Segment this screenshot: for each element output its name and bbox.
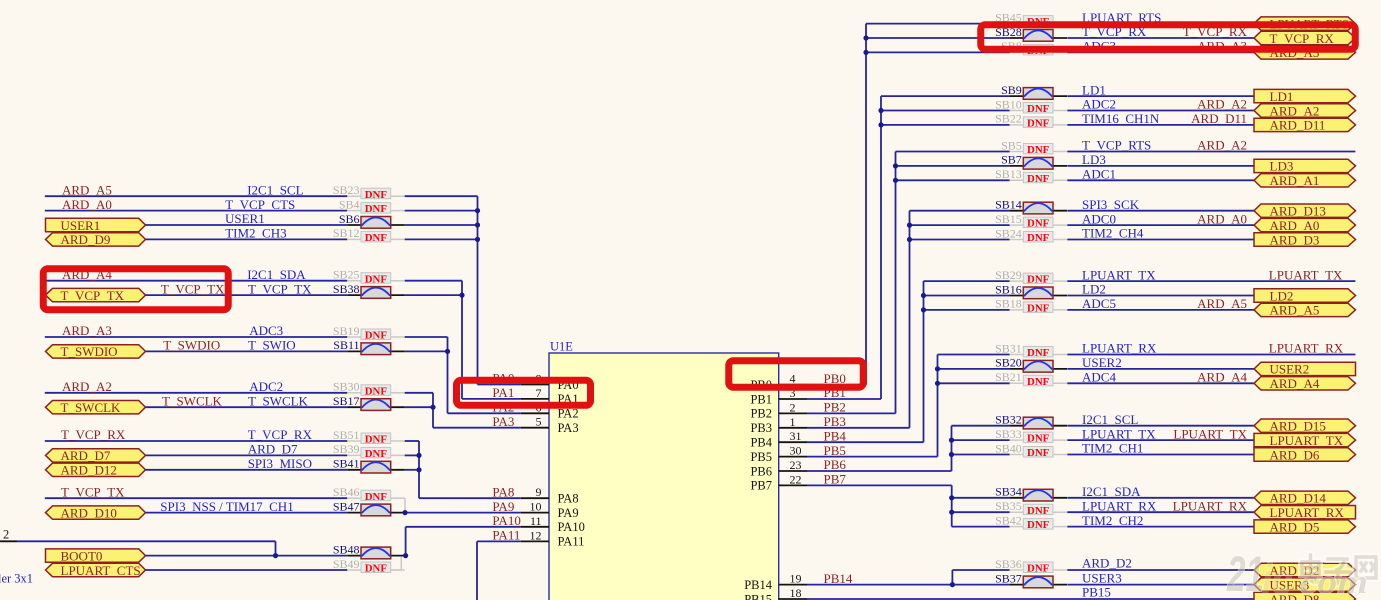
svg-text:PB15: PB15: [1082, 585, 1111, 600]
svg-text:PB14: PB14: [744, 578, 773, 592]
wire SB19 row: [45, 336, 348, 338]
net flag ARD_D12: [46, 463, 146, 478]
svg-text:9: 9: [536, 485, 542, 499]
svg-text:USER2: USER2: [1082, 355, 1122, 370]
junction at 419,455.4: [416, 453, 421, 458]
svg-text:SB32: SB32: [995, 413, 1022, 427]
wire bus group5 to PA8: [405, 441, 521, 498]
svg-text:SB29: SB29: [995, 268, 1022, 282]
wire bus group1 to PA0: [405, 196, 521, 384]
svg-text:T_SWDIO: T_SWDIO: [61, 344, 118, 359]
junction at 433,407.2: [430, 405, 435, 410]
svg-text:SB42: SB42: [995, 513, 1022, 527]
solder bridge SB35 (DNF, not fitted): [995, 499, 1067, 517]
solder bridge SB25 (DNF, not fitted): [333, 268, 405, 286]
svg-text:ARD_A3: ARD_A3: [62, 323, 112, 338]
wire to T_VCP_RX: [1067, 37, 1254, 39]
svg-text:I2C1_SCL: I2C1_SCL: [1082, 412, 1138, 427]
wire header to BOOT0 junction: [17, 541, 276, 555]
junction at 405.6,555.6: [403, 553, 408, 558]
solder bridge SB9 (fitted): [1001, 83, 1067, 99]
svg-text:ARD_A2: ARD_A2: [1197, 97, 1247, 112]
svg-text:PB15: PB15: [744, 592, 772, 600]
wire PB pin to bus group 7: [807, 426, 1010, 471]
net flag LPUART_RX: [1254, 505, 1356, 520]
solder bridge SB36 (DNF, not fitted): [995, 557, 1067, 575]
highlight box around PB0 pin: [729, 361, 864, 388]
net flag ARD_D14: [1254, 491, 1356, 506]
junction at 895.5,180.3: [893, 178, 898, 183]
pin 30 (PB5) of U1E: [750, 443, 845, 464]
svg-text:USER2: USER2: [1270, 362, 1310, 377]
junction at 405,512.6: [402, 510, 407, 515]
svg-text:PA10: PA10: [492, 513, 520, 528]
svg-text:SB20: SB20: [995, 356, 1022, 370]
wire SB51 row: [45, 440, 348, 442]
solder bridge SB11 (fitted): [333, 338, 404, 354]
svg-text:ARD_D15: ARD_D15: [1270, 419, 1326, 434]
wire to ARD_D6: [1067, 454, 1254, 456]
svg-text:18: 18: [790, 586, 802, 600]
junction at 951.7,497.8: [949, 495, 954, 500]
wire SB49 row: [146, 569, 348, 571]
svg-text:TIM2_CH2: TIM2_CH2: [1082, 513, 1143, 528]
svg-text:LPUART_RX: LPUART_RX: [1082, 498, 1157, 513]
svg-text:T_VCP_RX: T_VCP_RX: [248, 427, 313, 442]
solder bridge SB29 (DNF, not fitted): [995, 268, 1067, 286]
svg-text:DNF: DNF: [1027, 173, 1050, 185]
pin 11 (PA10) of U1E: [492, 513, 584, 534]
wire to sheet edge: [1067, 151, 1355, 153]
svg-text:SB11: SB11: [333, 338, 359, 352]
svg-text:LPUART_TX: LPUART_TX: [1082, 426, 1156, 441]
net flag USER2: [1254, 362, 1356, 377]
solder bridge SB22 (DNF, not fitted): [995, 112, 1067, 130]
svg-text:PA3: PA3: [558, 421, 579, 435]
svg-text:DNF: DNF: [1027, 376, 1050, 388]
svg-text:DNF: DNF: [365, 189, 388, 201]
pin 22 (PB7) of U1E: [750, 472, 846, 493]
net flag T_SWDIO: [46, 344, 146, 359]
pin 2 (PB2) of U1E: [750, 400, 845, 421]
wire SB47 row: [146, 512, 348, 514]
wire to LD3: [1067, 165, 1254, 167]
net flag LD3: [1254, 159, 1356, 174]
svg-text:SB18: SB18: [995, 297, 1022, 311]
wire PB14 to SB37 row: [807, 570, 1010, 585]
junction at 923.5,295.5: [921, 293, 926, 298]
wire to USER3 flag: [1067, 584, 1254, 586]
svg-text:USER1: USER1: [225, 211, 265, 226]
wire PB pin to bus group 1: [807, 24, 1010, 385]
wire to LPUART_TX: [1067, 439, 1254, 441]
svg-text:ADC4: ADC4: [1082, 370, 1116, 385]
wire PB pin to bus group 2: [807, 96, 1010, 399]
svg-text:SB25: SB25: [333, 268, 360, 282]
svg-text:ARD_D5: ARD_D5: [1270, 519, 1320, 534]
svg-text:TIM2_CH4: TIM2_CH4: [1082, 226, 1144, 241]
wire SB46 row: [45, 497, 348, 499]
svg-text:5: 5: [536, 415, 542, 429]
svg-text:DNF: DNF: [1027, 103, 1050, 115]
junction at 447.5,351.4: [445, 349, 450, 354]
net flag LPUART_RTS: [1254, 16, 1356, 31]
svg-text:ARD_A0: ARD_A0: [1197, 211, 1247, 226]
svg-text:23: 23: [790, 458, 802, 472]
pin 18 (PB15) of U1E: [744, 586, 807, 600]
svg-text:T_VCP_TX: T_VCP_TX: [61, 484, 125, 499]
junction at 477.5,210.6: [475, 208, 480, 213]
junction at 477.5,225: [475, 222, 480, 227]
svg-text:SB7: SB7: [1001, 153, 1022, 167]
wire to sheet edge: [1067, 280, 1355, 282]
svg-text:U1E: U1E: [550, 340, 573, 354]
svg-text:1: 1: [790, 415, 796, 429]
svg-text:ARD_D7: ARD_D7: [61, 448, 111, 463]
solder bridge SB5 (DNF, not fitted): [1001, 138, 1067, 156]
junction at 462,295.1: [459, 293, 464, 298]
svg-text:7: 7: [536, 386, 542, 400]
net flag LD2: [1254, 288, 1356, 303]
svg-text:DNF: DNF: [1027, 232, 1050, 244]
junction at 881,124.9: [878, 122, 883, 127]
wire SB17 row: [146, 406, 348, 408]
net flag ARD_D13: [1254, 204, 1356, 219]
solder bridge SB23 (DNF, not fitted): [333, 183, 405, 201]
svg-text:ADC2: ADC2: [1082, 97, 1116, 112]
svg-text:ARD_A0: ARD_A0: [62, 197, 112, 212]
wire to ARD_D14: [1067, 497, 1254, 499]
wire to ARD_D15: [1067, 425, 1254, 427]
svg-text:LPUART_TX: LPUART_TX: [1270, 433, 1344, 448]
svg-text:ARD_A4: ARD_A4: [1197, 370, 1247, 385]
wire SB48 to PA10: [405, 527, 521, 556]
pin 23 (PB6) of U1E: [750, 457, 846, 478]
svg-text:SPI3_MISO: SPI3_MISO: [248, 456, 312, 471]
wire SB47 to PA9: [405, 512, 521, 514]
wire SB11 row: [146, 350, 348, 352]
svg-text:ARD_D10: ARD_D10: [61, 505, 117, 520]
svg-text:PA9: PA9: [492, 499, 514, 514]
wire SB39 row: [146, 454, 348, 456]
solder bridge SB17 (fitted): [333, 394, 405, 410]
svg-text:ADC2: ADC2: [249, 379, 283, 394]
net flag ARD_A1: [1254, 173, 1356, 188]
svg-text:ARD_A5: ARD_A5: [1197, 296, 1247, 311]
solder bridge SB47 (fitted): [333, 499, 405, 515]
svg-text:LD2: LD2: [1082, 282, 1106, 297]
svg-text:PB7: PB7: [824, 472, 847, 487]
svg-text:SB4: SB4: [339, 197, 360, 211]
wire PB pin to bus group 8: [807, 485, 1010, 526]
wire to LPUART_RTS: [1067, 23, 1254, 25]
wire to ARD_D13: [1067, 210, 1254, 212]
net flag T_SWCLK: [46, 400, 146, 415]
svg-text:SB51: SB51: [333, 428, 360, 442]
svg-text:SPI3_SCK: SPI3_SCK: [1082, 197, 1140, 212]
svg-text:DNF: DNF: [1027, 274, 1050, 286]
net flag ARD_D10: [46, 505, 146, 520]
svg-text:DNF: DNF: [1027, 563, 1050, 575]
svg-text:PA11: PA11: [558, 535, 585, 549]
wire PB pin to bus group 5: [807, 281, 1010, 442]
net flag ARD_D8: [1254, 592, 1356, 600]
svg-text:SB15: SB15: [995, 212, 1022, 226]
wire SB12 row: [146, 238, 348, 240]
svg-text:T_SWCLK: T_SWCLK: [162, 393, 223, 408]
solder bridge SB24 (DNF, not fitted): [995, 226, 1067, 244]
svg-text:SB47: SB47: [333, 499, 360, 513]
svg-text:SB49: SB49: [333, 557, 360, 571]
svg-text:ARD_A4: ARD_A4: [1270, 376, 1320, 391]
net flag USER3: [1254, 577, 1356, 592]
junction at 909.5,239.5: [907, 237, 912, 242]
svg-text:DNF: DNF: [365, 330, 388, 342]
svg-text:SB39: SB39: [333, 442, 360, 456]
net flag ARD_D7: [46, 448, 146, 463]
wire to ARD_A4: [1067, 382, 1254, 384]
svg-text:ler 3x1: ler 3x1: [0, 572, 33, 586]
svg-text:DNF: DNF: [365, 434, 388, 446]
svg-text:PA11: PA11: [492, 528, 520, 543]
svg-text:ARD_A1: ARD_A1: [1270, 173, 1320, 188]
pin 2 of header: [0, 528, 17, 542]
junction at 923.5,309.9: [921, 307, 926, 312]
svg-text:SPI3_NSS / TIM17_CH1: SPI3_NSS / TIM17_CH1: [160, 499, 293, 514]
net flag ARD_D3: [1254, 232, 1356, 247]
svg-text:LPUART_RX: LPUART_RX: [1269, 341, 1344, 356]
svg-text:ARD_A2: ARD_A2: [1270, 103, 1320, 118]
svg-text:11: 11: [530, 514, 542, 528]
net flag ARD_A4: [1254, 376, 1356, 391]
svg-text:T_SWIO: T_SWIO: [248, 338, 296, 353]
pin 31 (PB4) of U1E: [750, 428, 846, 449]
svg-text:PB5: PB5: [750, 450, 772, 464]
svg-text:ARD_D14: ARD_D14: [1270, 491, 1327, 506]
svg-text:USER1: USER1: [61, 218, 101, 233]
junction at 477.5,239.4: [475, 237, 480, 242]
svg-text:SB35: SB35: [995, 499, 1022, 513]
svg-text:LD3: LD3: [1082, 152, 1106, 167]
svg-text:LPUART_CTS: LPUART_CTS: [61, 563, 141, 578]
wire to ARD_D11: [1067, 124, 1254, 126]
svg-text:SB14: SB14: [995, 198, 1022, 212]
solder bridge SB41 (fitted): [333, 457, 405, 473]
solder bridge SB31 (DNF, not fitted): [995, 341, 1067, 359]
net flag ARD_D2: [1254, 563, 1356, 578]
svg-text:LPUART_TX: LPUART_TX: [1173, 426, 1247, 441]
svg-text:BOOT0: BOOT0: [61, 548, 103, 563]
svg-text:PA8: PA8: [492, 484, 514, 499]
junction at 881,110.5: [878, 108, 883, 113]
svg-text:PB7: PB7: [750, 479, 772, 493]
svg-text:ARD_D11: ARD_D11: [1270, 118, 1326, 133]
junction at 866,38: [863, 35, 868, 40]
svg-text:PB6: PB6: [750, 464, 772, 478]
svg-text:12: 12: [530, 528, 542, 542]
wire SB48 row: [146, 555, 348, 557]
svg-text:TIM2_CH3: TIM2_CH3: [225, 226, 286, 241]
solder bridge SB8 (DNF, not fitted): [1001, 39, 1067, 57]
highlight box around PA0/PA1 pins: [457, 380, 591, 405]
pin 12 (PA11) of U1E: [492, 528, 584, 549]
svg-text:PB5: PB5: [824, 443, 846, 458]
wire SB41 row: [146, 469, 348, 471]
svg-text:ARD_D7: ARD_D7: [248, 442, 298, 457]
svg-text:ARD_D12: ARD_D12: [61, 463, 117, 478]
junction at 419,469.8: [416, 467, 421, 472]
svg-text:SB12: SB12: [333, 226, 360, 240]
svg-text:ARD_D13: ARD_D13: [1270, 204, 1326, 219]
junction at 909.5,225.1: [907, 223, 912, 228]
net flag ARD_A3: [1254, 45, 1356, 60]
svg-text:SB6: SB6: [339, 212, 360, 226]
wire SB23 row: [45, 195, 348, 197]
solder bridge SB33 (DNF, not fitted): [995, 427, 1067, 445]
svg-text:10: 10: [530, 500, 542, 514]
svg-text:SB40: SB40: [995, 441, 1022, 455]
net flag LD1: [1254, 89, 1356, 104]
pin 19 (PB14) of U1E: [744, 571, 853, 592]
svg-text:PB4: PB4: [750, 436, 772, 450]
net flag LPUART_CTS: [46, 563, 146, 578]
solder bridge SB46 (DNF, not fitted): [333, 485, 405, 503]
svg-text:PB6: PB6: [824, 457, 847, 472]
svg-text:LPUART_RX: LPUART_RX: [1270, 505, 1345, 520]
svg-text:DNF: DNF: [1027, 447, 1050, 459]
wire to ARD_D2 flag: [1067, 569, 1254, 571]
svg-text:PA8: PA8: [558, 492, 579, 506]
wire to LD1: [1067, 95, 1254, 97]
svg-text:SB16: SB16: [995, 282, 1022, 296]
svg-text:T_VCP_TX: T_VCP_TX: [161, 281, 225, 296]
svg-text:I2C1_SCL: I2C1_SCL: [247, 182, 303, 197]
svg-text:T_SWDIO: T_SWDIO: [163, 338, 220, 353]
svg-text:DNF: DNF: [1027, 505, 1050, 517]
wire to sheet edge: [1067, 354, 1355, 356]
svg-text:PB4: PB4: [824, 428, 847, 443]
svg-text:SB36: SB36: [995, 557, 1022, 571]
wire bus group2 to PA1: [405, 281, 521, 399]
svg-text:SB41: SB41: [333, 457, 360, 471]
junction at 951.5,454.5: [949, 452, 954, 457]
net flag ARD_D9: [46, 232, 146, 247]
svg-text:DNF: DNF: [365, 273, 388, 285]
pin 4 (PB0) of U1E: [750, 371, 845, 392]
IC U1E (MCU fragment): [549, 340, 779, 600]
wire to ARD_A0: [1067, 224, 1254, 226]
solder bridge SB19 (DNF, not fitted): [333, 324, 405, 342]
svg-text:I2C1_SDA: I2C1_SDA: [247, 267, 306, 282]
svg-text:ARD_A5: ARD_A5: [62, 182, 112, 197]
svg-text:SB19: SB19: [333, 324, 360, 338]
pin 8 (PA0) of U1E: [492, 371, 578, 392]
svg-text:22: 22: [790, 472, 802, 486]
solder bridge SB12 (DNF, not fitted): [333, 226, 405, 244]
svg-text:PA1: PA1: [492, 385, 514, 400]
svg-text:SB9: SB9: [1001, 83, 1022, 97]
svg-text:ADC0: ADC0: [1082, 211, 1116, 226]
net flag ARD_A0: [1254, 218, 1356, 233]
solder bridge SB10 (DNF, not fitted): [995, 97, 1067, 115]
svg-text:DNF: DNF: [1027, 347, 1050, 359]
svg-text:ARD_A5: ARD_A5: [1270, 303, 1320, 318]
svg-text:SB46: SB46: [333, 485, 360, 499]
svg-text:com: com: [1300, 564, 1368, 600]
svg-text:LD1: LD1: [1082, 82, 1106, 97]
svg-text:21: 21: [1226, 546, 1264, 600]
svg-text:T_SWCLK: T_SWCLK: [248, 393, 309, 408]
wire bus group4 to PA3: [405, 393, 521, 428]
svg-text:SB13: SB13: [995, 167, 1022, 181]
svg-text:T_VCP_RTS: T_VCP_RTS: [1082, 138, 1151, 153]
svg-text:SB10: SB10: [995, 97, 1022, 111]
wire SB38 row: [146, 294, 348, 296]
svg-text:SB5: SB5: [1001, 138, 1022, 152]
net flag T_VCP_TX: [46, 288, 146, 303]
svg-text:ARD_A0: ARD_A0: [1270, 218, 1320, 233]
solder bridge SB38 (fitted): [333, 282, 405, 298]
svg-text:DNF: DNF: [365, 232, 388, 244]
solder bridge SB15 (DNF, not fitted): [995, 212, 1067, 230]
junction at 951.5,440.1: [949, 438, 954, 443]
wire to ARD_A5: [1067, 309, 1254, 311]
svg-text:SB22: SB22: [995, 112, 1022, 126]
svg-text:PB2: PB2: [824, 400, 846, 415]
wire to ARD_D5: [1067, 526, 1254, 528]
watermark 21ic.com: [1226, 546, 1376, 600]
svg-text:PA9: PA9: [558, 506, 579, 520]
pin 1 (PB3) of U1E: [750, 414, 845, 435]
svg-text:PB14: PB14: [824, 571, 853, 586]
wire PB15 to ARD_D8 flag: [807, 598, 1254, 600]
wire PB pin to bus group 3: [807, 152, 1010, 414]
solder bridge SB21 (DNF, not fitted): [995, 370, 1067, 388]
svg-text:DNF: DNF: [365, 563, 388, 575]
svg-text:SB37: SB37: [995, 571, 1022, 585]
solder bridge SB16 (fitted): [995, 282, 1067, 298]
wire SB4 row: [45, 210, 348, 212]
svg-text:LD2: LD2: [1270, 288, 1294, 303]
solder bridge SB28 (fitted): [995, 25, 1067, 41]
solder bridge SB42 (DNF, not fitted): [995, 513, 1067, 531]
svg-text:LPUART_TX: LPUART_TX: [1082, 267, 1156, 282]
svg-text:TIM16_CH1N: TIM16_CH1N: [1082, 111, 1160, 126]
solder bridge SB48 (fitted): [333, 542, 405, 558]
svg-text:DNF: DNF: [1027, 303, 1050, 315]
svg-text:PB3: PB3: [824, 414, 846, 429]
svg-text:DNF: DNF: [1027, 433, 1050, 445]
svg-text:SB34: SB34: [995, 485, 1022, 499]
svg-text:SB24: SB24: [995, 226, 1022, 240]
wire to ARD_D3: [1067, 239, 1254, 241]
svg-text:DNF: DNF: [365, 491, 388, 503]
wire bus group3 to PA2: [405, 337, 521, 413]
wire to LD2: [1067, 295, 1254, 297]
svg-text:ADC3: ADC3: [249, 323, 283, 338]
net flag LPUART_TX: [1254, 433, 1356, 448]
net flag USER1: [46, 218, 146, 233]
wire PB pin to bus group 6: [807, 355, 1010, 457]
svg-text:SB17: SB17: [333, 394, 360, 408]
svg-text:PB1: PB1: [750, 392, 772, 406]
junction at 275.5,555.6: [273, 553, 278, 558]
svg-text:ARD_D2: ARD_D2: [1082, 556, 1132, 571]
svg-text:T_SWCLK: T_SWCLK: [61, 400, 122, 415]
svg-text:4: 4: [790, 372, 796, 386]
svg-text:LPUART_TX: LPUART_TX: [1269, 267, 1343, 282]
highlight box around ARD_A4 / T_VCP_TX: [43, 269, 228, 310]
